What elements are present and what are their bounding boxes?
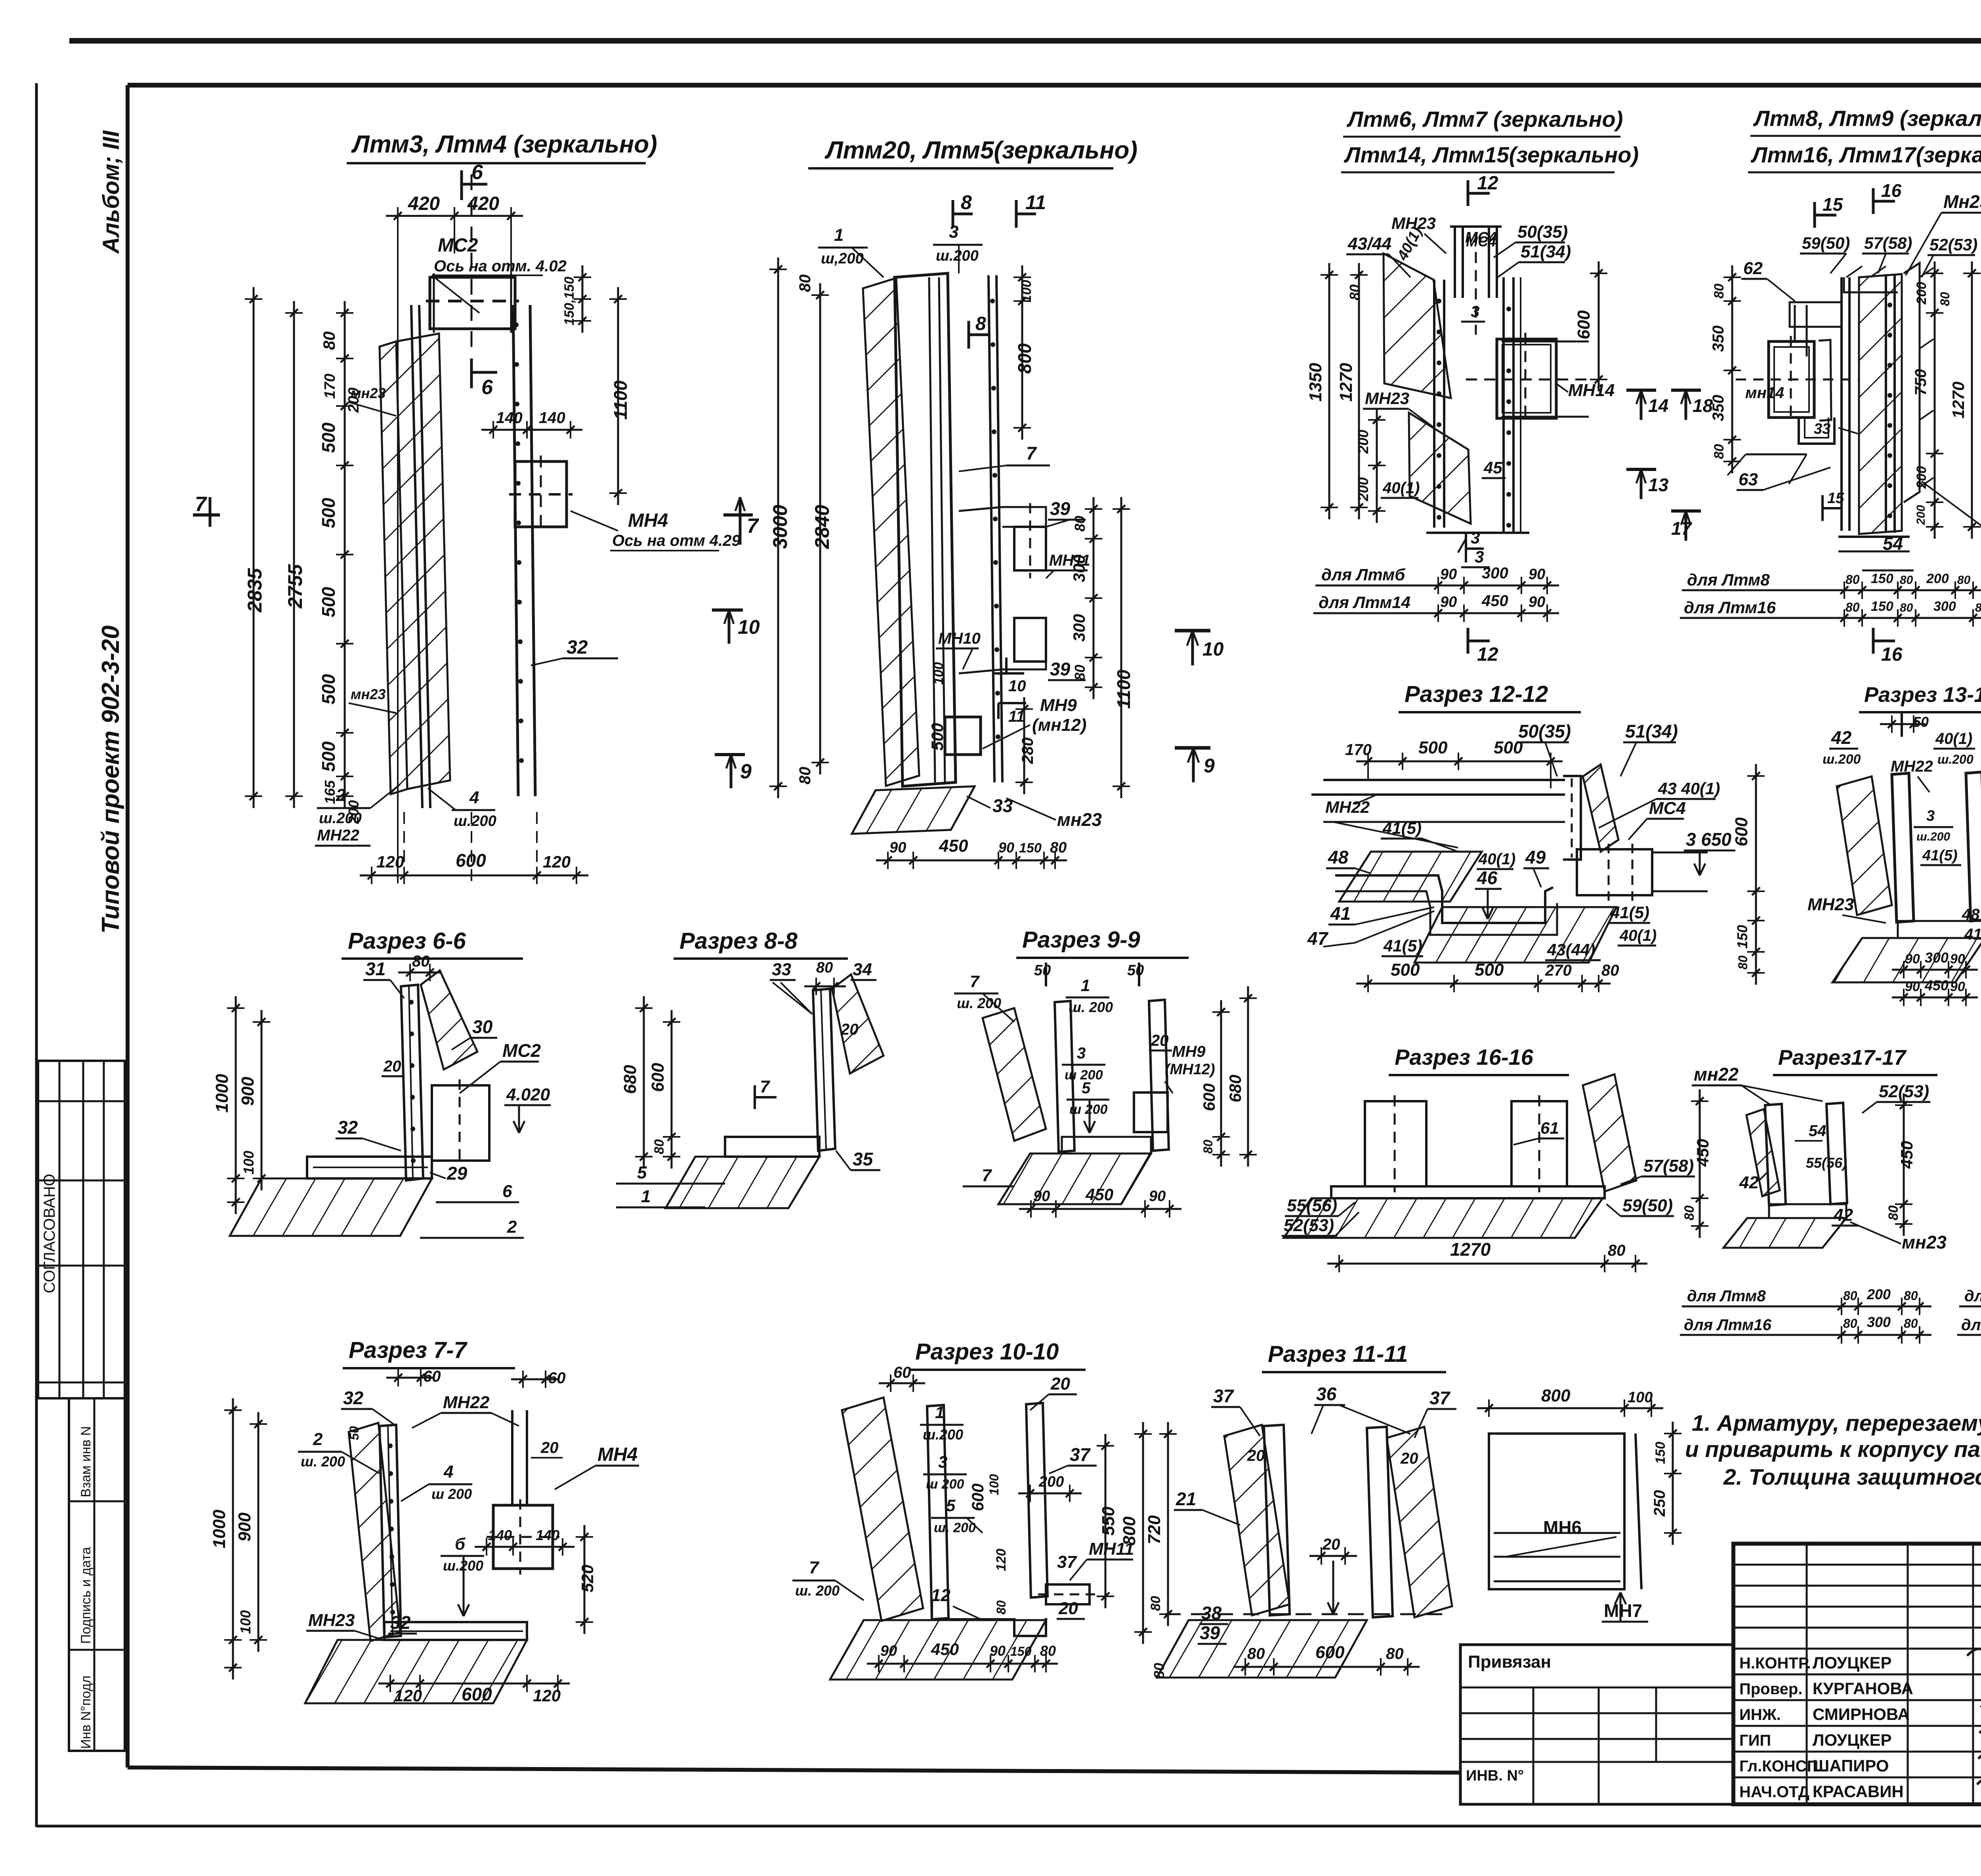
svg-text:Инв N°подл: Инв N°подл: [78, 1676, 94, 1749]
bottom dim 500 500 270 80: [1356, 983, 1611, 985]
svg-text:мн22: мн22: [1694, 1064, 1739, 1085]
svg-text:7: 7: [760, 1077, 771, 1096]
svg-text:90: 90: [990, 1643, 1006, 1659]
right pipe and MN4 box: [511, 1410, 513, 1505]
svg-text:14: 14: [1648, 395, 1668, 416]
svg-text:3: 3: [938, 1453, 947, 1471]
svg-text:2755: 2755: [284, 564, 306, 608]
svg-text:МН23: МН23: [1365, 389, 1409, 408]
svg-text:120: 120: [994, 1549, 1009, 1571]
flag 12 bottom: [1467, 628, 1470, 654]
svg-text:80: 80: [1845, 572, 1860, 587]
bottom dim 120 600 120: [360, 875, 588, 877]
right dim 450 80: [1699, 1089, 1701, 1238]
svg-text:15: 15: [1823, 194, 1844, 215]
dim 140 140: [481, 429, 582, 431]
svg-text:3 650: 3 650: [1686, 829, 1732, 850]
svg-text:46: 46: [1477, 867, 1498, 888]
svg-text:20: 20: [1322, 1536, 1340, 1553]
svg-text:37: 37: [1213, 1386, 1235, 1406]
svg-text:80: 80: [1904, 1289, 1918, 1303]
svg-text:55(56): 55(56): [1287, 1196, 1337, 1215]
svg-text:80: 80: [994, 1600, 1008, 1615]
svg-text:350: 350: [1710, 326, 1727, 352]
MS2 sleeve box top: [430, 277, 515, 329]
svg-text:140: 140: [488, 1527, 512, 1543]
svg-text:2: 2: [336, 785, 346, 805]
right dims 600 680 80: [1220, 1000, 1222, 1167]
MS2 pipe box: [432, 1085, 489, 1161]
svg-text:500: 500: [1494, 738, 1523, 757]
bottom slab: [384, 1622, 527, 1640]
hatch left: [983, 1008, 1046, 1141]
svg-text:1270: 1270: [1949, 381, 1968, 418]
bottom dim 120 600 120: [378, 1683, 570, 1685]
section flag 6 lower: [470, 358, 473, 388]
right dims 150 150: [582, 265, 584, 333]
svg-text:МН4: МН4: [628, 510, 668, 531]
svg-text:80: 80: [1900, 574, 1913, 587]
svg-text:7: 7: [1026, 443, 1037, 463]
flags 50 50: [1045, 963, 1047, 986]
svg-text:80: 80: [1601, 962, 1619, 979]
left dim 3000: [777, 257, 779, 798]
svg-text:Н.КОНТР.: Н.КОНТР.: [1739, 1655, 1811, 1672]
svg-text:57(58): 57(58): [1643, 1156, 1694, 1176]
bottom slab: [1331, 1186, 1605, 1198]
title block signature columns: [1733, 1564, 1981, 1566]
svg-text:90: 90: [1149, 1188, 1166, 1205]
svg-text:80: 80: [1900, 601, 1913, 614]
svg-text:для Лтм16: для Лтм16: [1961, 1316, 1981, 1334]
svg-text:17: 17: [1671, 518, 1693, 539]
pipe MN11: [1046, 1584, 1090, 1604]
svg-text:63: 63: [1739, 470, 1758, 489]
right dims: [1934, 261, 1936, 539]
svg-text:720: 720: [1145, 1515, 1164, 1544]
svg-text:150: 150: [1871, 599, 1893, 614]
svg-text:500: 500: [318, 498, 339, 528]
svg-text:Гл.КОНСП: Гл.КОНСП: [1739, 1758, 1818, 1775]
svg-text:3: 3: [1926, 808, 1935, 824]
svg-text:80: 80: [1975, 601, 1981, 614]
svg-text:МН22: МН22: [317, 827, 359, 844]
svg-text:55(56): 55(56): [1806, 1155, 1847, 1171]
svg-text:52(53): 52(53): [1284, 1216, 1334, 1235]
svg-text:80: 80: [1938, 292, 1952, 306]
svg-text:40(1): 40(1): [1935, 730, 1972, 747]
dims 140 140 520: [475, 1546, 574, 1548]
svg-text:Разрез 10-10: Разрез 10-10: [915, 1339, 1059, 1365]
svg-text:680: 680: [620, 1065, 640, 1094]
svg-text:450: 450: [1481, 592, 1508, 610]
right wall hatched: [1387, 1427, 1452, 1617]
svg-text:520: 520: [578, 1565, 597, 1592]
svg-text:7: 7: [195, 493, 207, 516]
svg-text:1100: 1100: [1113, 669, 1134, 709]
floor edge lines: [1746, 454, 1807, 456]
svg-text:42: 42: [1831, 727, 1852, 748]
dim 1100 right: [1120, 497, 1122, 798]
bottom dims 80 600 80: [1233, 1666, 1420, 1668]
channel section: [1892, 773, 1914, 922]
svg-text:1270: 1270: [1450, 1239, 1491, 1260]
dim 280: [1023, 697, 1025, 794]
svg-text:7: 7: [970, 972, 980, 991]
left dims 800 720 80: [1142, 1422, 1144, 1644]
svg-text:ш.200: ш.200: [319, 810, 362, 827]
svg-text:32: 32: [390, 1612, 411, 1633]
title block main frame: [1733, 1544, 1981, 1804]
svg-text:80: 80: [1040, 1643, 1056, 1659]
svg-text:2: 2: [507, 1217, 517, 1237]
svg-text:ш.200: ш.200: [1916, 830, 1950, 843]
left dims 1000 900 100: [232, 1398, 234, 1680]
svg-text:140: 140: [496, 409, 523, 427]
svg-text:20: 20: [383, 1058, 401, 1075]
svg-text:90: 90: [1950, 951, 1965, 967]
svg-text:13: 13: [1648, 475, 1669, 495]
small parts: [1819, 340, 1831, 421]
left slab hatch: [1339, 852, 1482, 902]
dim chain segments 500: [344, 301, 346, 808]
svg-text:ш. 200: ш. 200: [301, 1453, 345, 1470]
svg-text:Лтм6, Лтм7 (зеркально): Лтм6, Лтм7 (зеркально): [1346, 107, 1623, 132]
channel walls: [1055, 1001, 1074, 1152]
svg-text:3: 3: [1475, 547, 1484, 566]
svg-text:90: 90: [1950, 979, 1965, 994]
ground hatch: [830, 1620, 1046, 1680]
big hatch left: [842, 1397, 923, 1621]
svg-text:8: 8: [961, 191, 972, 214]
svg-text:59(50): 59(50): [1622, 1196, 1673, 1215]
svg-text:МН22: МН22: [443, 1393, 490, 1412]
right dims 150 250: [1672, 1422, 1674, 1545]
svg-text:ш. 200: ш. 200: [1069, 999, 1113, 1015]
svg-text:40(1): 40(1): [1478, 850, 1515, 868]
svg-text:49: 49: [1525, 847, 1546, 867]
svg-text:80: 80: [1682, 1205, 1697, 1220]
svg-text:Разрез 12-12: Разрез 12-12: [1405, 681, 1548, 707]
svg-text:50: 50: [1034, 962, 1051, 979]
svg-text:60: 60: [548, 1369, 566, 1387]
svg-text:МН9: МН9: [1172, 1043, 1206, 1060]
svg-text:80: 80: [1386, 1645, 1404, 1662]
svg-text:Лтм3, Лтм4 (зеркально): Лтм3, Лтм4 (зеркально): [351, 131, 657, 158]
svg-text:41(5): 41(5): [1610, 903, 1649, 922]
svg-text:6: 6: [471, 161, 483, 184]
left dims 1350 1270: [1328, 263, 1330, 519]
svg-text:500: 500: [318, 587, 339, 617]
svg-text:500: 500: [1391, 960, 1420, 980]
svg-text:80: 80: [1072, 665, 1088, 681]
svg-text:9: 9: [1204, 755, 1215, 777]
svg-text:80: 80: [1608, 1242, 1626, 1259]
svg-text:15: 15: [1827, 490, 1844, 507]
svg-text:Ось на отм. 4.02: Ось на отм. 4.02: [434, 257, 567, 275]
svg-text:ш 200: ш 200: [431, 1486, 472, 1502]
svg-text:мн23: мн23: [351, 385, 386, 401]
svg-text:20: 20: [1247, 1447, 1265, 1464]
svg-text:Разрез 8-8: Разрез 8-8: [679, 928, 798, 954]
svg-text:47: 47: [1307, 928, 1329, 949]
dim 420 420: [386, 215, 523, 217]
svg-text:37: 37: [1070, 1444, 1091, 1465]
svg-text:Подпись и дата: Подпись и дата: [78, 1547, 94, 1644]
svg-text:для Лтм14: для Лтм14: [1319, 593, 1410, 612]
svg-text:МН9: МН9: [1040, 696, 1077, 715]
svg-text:80: 80: [1712, 444, 1727, 459]
ground hatch: [1157, 1620, 1367, 1678]
flags 60 60: [386, 1377, 433, 1379]
svg-text:420: 420: [408, 193, 440, 214]
svg-text:(мн12): (мн12): [1032, 715, 1086, 735]
dim chain 2755: [293, 301, 295, 808]
stamp table lower left: [69, 1398, 125, 1751]
svg-text:80: 80: [796, 767, 814, 785]
svg-text:500: 500: [318, 741, 339, 772]
svg-text:500: 500: [1418, 738, 1448, 757]
bottom slab hatch: [1898, 921, 1981, 938]
right dim 600: [1598, 261, 1600, 391]
svg-text:4: 4: [469, 788, 479, 807]
svg-text:12: 12: [931, 1586, 950, 1605]
svg-text:мн23: мн23: [1902, 1232, 1947, 1253]
ground hatch: [305, 1640, 527, 1703]
hatch band right: [832, 974, 884, 1073]
svg-text:150: 150: [1010, 1644, 1032, 1659]
svg-text:39: 39: [1050, 659, 1071, 679]
markers 14 13 between figs: [1626, 389, 1656, 392]
svg-text:90: 90: [998, 839, 1014, 856]
flags 15 16 top: [1813, 202, 1816, 228]
svg-text:ш.200: ш.200: [923, 1426, 963, 1443]
svg-text:ш.200: ш.200: [1937, 752, 1973, 766]
dims 200 200: [1376, 408, 1378, 523]
svg-text:450: 450: [1897, 1141, 1916, 1169]
svg-text:80: 80: [1712, 284, 1727, 299]
svg-text:170: 170: [322, 374, 338, 398]
pipe assembly lower: [1014, 618, 1046, 662]
svg-text:90: 90: [1905, 979, 1920, 994]
svg-text:80: 80: [1201, 1140, 1215, 1154]
svg-text:для Лтм16: для Лтм16: [1684, 598, 1776, 617]
MS4 box: [1577, 849, 1652, 895]
svg-text:МН23: МН23: [308, 1611, 355, 1630]
svg-text:80: 80: [1886, 1205, 1901, 1220]
svg-text:20: 20: [540, 1439, 559, 1457]
svg-text:ИНЖ.: ИНЖ.: [1739, 1706, 1781, 1723]
svg-text:1350: 1350: [1306, 363, 1325, 402]
svg-text:МН6: МН6: [1543, 1517, 1582, 1538]
svg-text:40(1): 40(1): [1382, 479, 1420, 497]
svg-text:600: 600: [648, 1063, 668, 1092]
fig C bottom 3 label: [1458, 539, 1466, 553]
svg-text:200: 200: [1355, 477, 1371, 501]
svg-text:80: 80: [1050, 839, 1067, 856]
svg-text:51(34): 51(34): [1625, 721, 1678, 742]
stamp table upper left: [38, 1061, 125, 1398]
svg-text:80: 80: [1072, 516, 1088, 532]
svg-text:450: 450: [1693, 1139, 1712, 1167]
channel wall rails: [1840, 277, 1843, 531]
svg-text:41(5): 41(5): [1382, 819, 1422, 837]
wall vertical: [401, 985, 423, 1180]
top dim 800 100: [1477, 1407, 1663, 1409]
svg-text:ЛОУЦКЕР: ЛОУЦКЕР: [1813, 1653, 1892, 1672]
svg-text:43 40(1): 43 40(1): [1658, 779, 1720, 798]
svg-text:100: 100: [987, 1474, 1001, 1495]
page border outer: [69, 38, 1981, 44]
svg-text:800: 800: [1120, 1516, 1139, 1546]
svg-text:для Лтм8: для Лтм8: [1687, 570, 1770, 589]
svg-text:48: 48: [1328, 847, 1349, 867]
svg-text:600: 600: [1200, 1083, 1218, 1111]
svg-text:Альбом; III: Альбом; III: [98, 130, 124, 254]
svg-text:29: 29: [447, 1163, 468, 1184]
svg-text:80: 80: [816, 959, 833, 976]
svg-text:2840: 2840: [811, 505, 833, 549]
inner drawing frame: [128, 83, 1981, 88]
right dim chain 80 300 300 80: [1093, 497, 1095, 699]
svg-text:для Лтм16: для Лтм16: [1684, 1316, 1772, 1334]
left dim chain 80 350 350 80: [1731, 265, 1733, 473]
svg-text:Разрез 13-13: Разрез 13-13: [1864, 683, 1981, 707]
svg-text:б: б: [455, 1535, 466, 1553]
svg-text:ш. 200: ш. 200: [934, 1520, 976, 1535]
flag 16 bottom: [1872, 628, 1875, 654]
svg-text:80: 80: [1151, 1663, 1167, 1679]
svg-text:280: 280: [1019, 738, 1036, 765]
svg-text:800: 800: [1014, 343, 1035, 374]
MN9 box: [1134, 1092, 1168, 1132]
svg-text:41: 41: [1330, 903, 1351, 924]
left wall hatched: [1224, 1425, 1290, 1615]
bottom slab: [307, 1157, 432, 1178]
outer edge band: [1904, 263, 1920, 502]
svg-text:37: 37: [1057, 1552, 1077, 1572]
svg-text:4: 4: [443, 1462, 453, 1481]
svg-text:750: 750: [1912, 369, 1929, 396]
svg-text:Лтм14, Лтм15(зеркально): Лтм14, Лтм15(зеркально): [1344, 142, 1639, 167]
hatched wall right: [1859, 274, 1902, 534]
right wall box: [1512, 1101, 1567, 1186]
svg-text:32: 32: [343, 1388, 364, 1408]
svg-text:100: 100: [237, 1610, 254, 1634]
svg-text:10: 10: [1202, 639, 1224, 660]
left dims 680 600 80: [643, 996, 645, 1169]
svg-text:150: 150: [1871, 571, 1893, 586]
svg-text:450: 450: [1085, 1185, 1113, 1204]
svg-text:80: 80: [652, 1139, 667, 1154]
svg-text:МН11: МН11: [1049, 552, 1090, 569]
left dim 2840: [819, 283, 821, 774]
hatched band top right: [421, 970, 477, 1070]
svg-text:300: 300: [1925, 949, 1949, 966]
svg-text:мн14: мн14: [1745, 384, 1784, 402]
svg-text:20: 20: [840, 1021, 859, 1038]
svg-text:50: 50: [1127, 962, 1144, 979]
svg-text:8: 8: [975, 313, 986, 334]
section marker 9 right: [715, 753, 745, 756]
svg-text:54: 54: [1809, 1122, 1826, 1140]
svg-text:90: 90: [1905, 951, 1920, 967]
hatched wall big: [1384, 254, 1451, 398]
privyazan table: [1460, 1645, 1733, 1804]
flag 15 lower: [1821, 495, 1824, 521]
svg-text:20: 20: [1400, 1450, 1418, 1467]
markers 18 17: [1671, 389, 1701, 392]
box MN14: [1497, 339, 1556, 418]
svg-text:СОГЛАСОВАНО: СОГЛАСОВАНО: [41, 1174, 58, 1293]
bottom dim 90 450 90: [1019, 1208, 1181, 1210]
svg-text:1000: 1000: [210, 1510, 229, 1548]
svg-text:500: 500: [318, 422, 339, 453]
svg-text:90: 90: [880, 1643, 897, 1659]
svg-text:61: 61: [1540, 1119, 1559, 1137]
svg-text:3: 3: [1471, 303, 1479, 320]
svg-text:450: 450: [1924, 977, 1949, 993]
svg-text:300: 300: [1933, 599, 1956, 614]
svg-text:для Лтмб: для Лтмб: [1321, 565, 1405, 584]
svg-text:300: 300: [1867, 1314, 1891, 1330]
svg-text:33: 33: [772, 960, 791, 979]
svg-text:20: 20: [1151, 1032, 1169, 1049]
svg-text:1100: 1100: [610, 380, 631, 419]
bracket 62 piece: [1790, 302, 1842, 327]
bottom hatch strip: [852, 786, 975, 834]
svg-text:57(58): 57(58): [1864, 234, 1912, 252]
dashed line bottom: [1165, 1613, 1450, 1615]
svg-text:43/44: 43/44: [1347, 234, 1391, 254]
top dim 170 500 500: [1356, 761, 1563, 763]
section marker 7 right: [723, 513, 753, 517]
svg-text:150: 150: [1734, 925, 1750, 949]
svg-text:80: 80: [412, 953, 430, 970]
bottom dim 90 450 90 150 80: [867, 1663, 1058, 1665]
svg-text:52(53): 52(53): [1929, 235, 1977, 254]
svg-text:20: 20: [1058, 1599, 1078, 1618]
bottom slab hatch 2: [1414, 907, 1616, 963]
svg-text:41: 41: [1964, 926, 1981, 943]
svg-text:32: 32: [338, 1117, 358, 1138]
svg-text:80: 80: [796, 275, 814, 292]
svg-text:и приварить к корпусу патрубк: и приварить к корпусу патрубков.: [1685, 1437, 1981, 1462]
svg-text:2. Толщина защитного слоя 2: 2. Толщина защитного слоя 20мм.: [1723, 1464, 1981, 1490]
hatch right of channel: [1583, 765, 1618, 852]
svg-text:Привязан: Привязан: [1468, 1652, 1551, 1672]
svg-text:3000: 3000: [769, 505, 791, 549]
svg-text:60: 60: [423, 1368, 441, 1385]
svg-text:1: 1: [1081, 976, 1090, 995]
svg-text:80: 80: [1736, 955, 1750, 970]
box MN4: [515, 461, 567, 527]
svg-text:5: 5: [637, 1163, 647, 1182]
hook bottom: [1799, 418, 1834, 444]
svg-text:100: 100: [1628, 1389, 1653, 1406]
svg-text:16: 16: [1881, 644, 1903, 665]
svg-text:600: 600: [968, 1483, 987, 1511]
svg-text:39: 39: [1050, 498, 1071, 519]
svg-text:800: 800: [1541, 1386, 1571, 1405]
bottom slab: [725, 1137, 819, 1157]
svg-text:300: 300: [1482, 564, 1508, 582]
svg-text:150: 150: [1019, 841, 1042, 856]
svg-text:165: 165: [322, 780, 338, 804]
channel walls: [380, 1425, 401, 1637]
svg-text:1: 1: [834, 225, 844, 245]
svg-text:600: 600: [1732, 817, 1751, 846]
